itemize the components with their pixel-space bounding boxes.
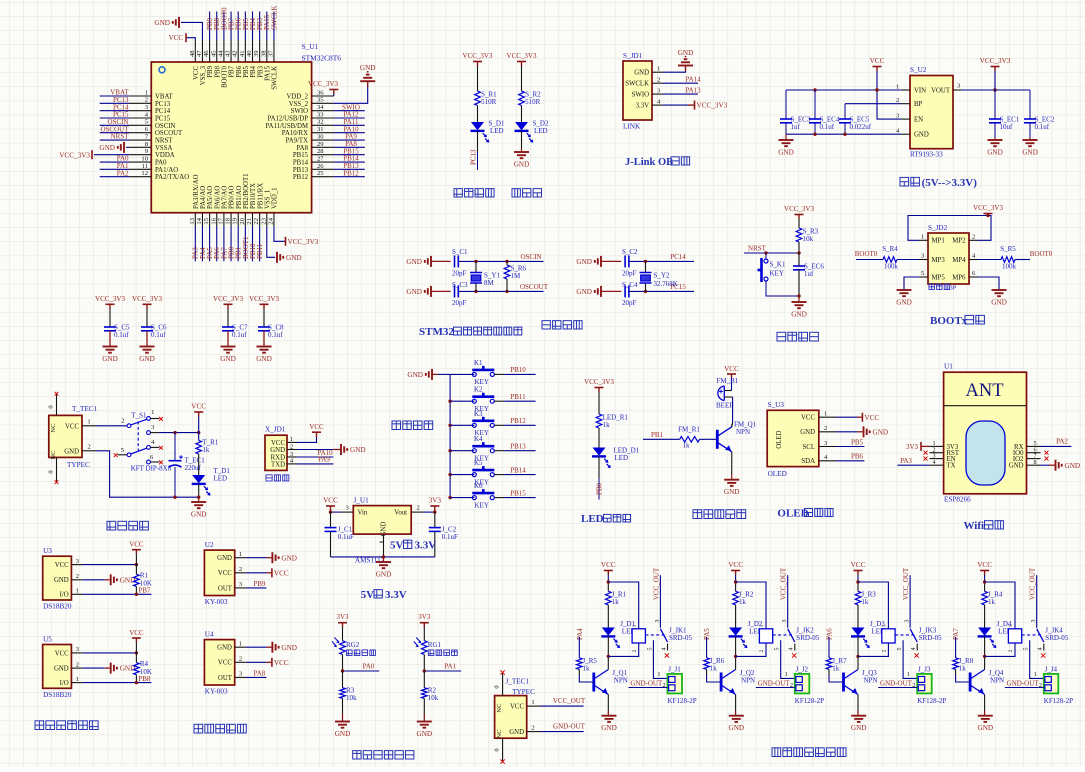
capacitor S_C7 0.1uf bbox=[222, 326, 234, 328]
svg-text:1: 1 bbox=[657, 671, 660, 678]
svg-text:GND: GND bbox=[576, 288, 592, 296]
capacitor S_C8 0.1uf bbox=[258, 326, 270, 328]
wire net VBAT bbox=[100, 95, 129, 97]
svg-text:GND: GND bbox=[851, 724, 867, 732]
wire net PB9 bbox=[209, 12, 211, 41]
svg-text:VCC: VCC bbox=[129, 541, 144, 549]
svg-text:MP6: MP6 bbox=[952, 274, 966, 281]
S_U2 pin 1 VIN bbox=[901, 89, 910, 91]
key K5 KEY bbox=[472, 473, 476, 477]
svg-text:GND: GND bbox=[407, 371, 423, 379]
svg-text:PA6/AO: PA6/AO bbox=[214, 186, 221, 209]
wire emitter to ground bbox=[857, 695, 859, 712]
svg-text:(5V-->3.3V): (5V-->3.3V) bbox=[922, 177, 978, 189]
S_JD2 pins 3 4 bbox=[919, 259, 928, 261]
wire net PB6 bbox=[836, 460, 864, 462]
svg-text:I/O: I/O bbox=[60, 680, 69, 687]
svg-text:S_R5: S_R5 bbox=[1000, 245, 1016, 253]
svg-text:VSS_2: VSS_2 bbox=[289, 101, 309, 108]
svg-text:T_S1: T_S1 bbox=[131, 412, 147, 420]
svg-text:SRD-05: SRD-05 bbox=[796, 634, 819, 642]
wire net PA8 bbox=[334, 146, 365, 148]
wire VCC node bbox=[607, 575, 609, 582]
capacitor S_EC5 0.022uf bbox=[844, 104, 846, 119]
wire net PA10 bbox=[334, 132, 365, 134]
svg-text:PA10/RX: PA10/RX bbox=[282, 130, 308, 137]
ground below S_C8 bbox=[263, 340, 265, 347]
ground below J_Q1 bbox=[602, 715, 617, 717]
svg-text:100k: 100k bbox=[884, 262, 899, 270]
S_JD1 pin 1 GND bbox=[652, 71, 663, 73]
svg-text:K2: K2 bbox=[474, 386, 483, 394]
svg-text:GND: GND bbox=[987, 149, 1003, 157]
resistor J_R3 1k bbox=[855, 591, 861, 605]
X_JD1 pin 2 GND bbox=[287, 449, 297, 451]
connector J_J1 KF128-2P bbox=[668, 674, 683, 694]
svg-text:VCC_3V3: VCC_3V3 bbox=[249, 295, 279, 303]
wire net PC14 bbox=[100, 110, 129, 112]
svg-text:DS18B20: DS18B20 bbox=[43, 603, 72, 611]
svg-text:OUT: OUT bbox=[218, 675, 233, 682]
T_S1 pin5 stub no-connect bbox=[118, 454, 128, 456]
svg-text:PB4: PB4 bbox=[250, 65, 257, 77]
wire net PC13 bbox=[477, 131, 479, 152]
antenna shape bbox=[966, 421, 1005, 485]
ground for key bus bbox=[431, 369, 433, 380]
U1 pin 48 VCC bbox=[194, 40, 196, 62]
U4 pin 2 VCC bbox=[235, 661, 246, 663]
svg-text:KFT DIP-8X8: KFT DIP-8X8 bbox=[131, 465, 172, 473]
display S_U3 OLED bbox=[767, 410, 819, 466]
svg-text:GND: GND bbox=[991, 299, 1007, 307]
connector S_JD1 LINK bbox=[623, 61, 652, 120]
ground left of S_C1 bbox=[430, 256, 432, 267]
wire bbox=[984, 605, 986, 628]
S_U3 pin 2 GND bbox=[819, 431, 836, 433]
svg-text:PB15: PB15 bbox=[510, 489, 526, 497]
svg-text:FM_R1: FM_R1 bbox=[678, 426, 700, 434]
LED T_D1 bbox=[192, 475, 205, 483]
svg-text:0.1uf: 0.1uf bbox=[232, 331, 247, 339]
svg-text:S_JD2: S_JD2 bbox=[928, 224, 948, 232]
svg-text:GND: GND bbox=[576, 258, 592, 266]
svg-text:NRST: NRST bbox=[155, 138, 173, 145]
svg-text:45: 45 bbox=[210, 50, 217, 57]
svg-text:VCC: VCC bbox=[801, 415, 815, 422]
svg-text:29: 29 bbox=[317, 141, 324, 148]
svg-text:1k: 1k bbox=[959, 664, 967, 672]
U1 pin 20 PB2/BOOT1 bbox=[244, 213, 246, 227]
title fuwei circuit bbox=[777, 332, 786, 341]
svg-text:19: 19 bbox=[232, 217, 239, 224]
wire pin1 to VCC bbox=[836, 416, 857, 418]
wire pin2 to ground bbox=[297, 449, 333, 451]
svg-text:VCC: VCC bbox=[191, 403, 206, 411]
capacitor J_C1 0.1uF bbox=[330, 512, 332, 528]
ground at U1 pin47 VSS_3 bbox=[178, 17, 180, 28]
svg-text:NRST: NRST bbox=[111, 133, 130, 141]
svg-text:0.022uf: 0.022uf bbox=[850, 123, 872, 131]
svg-text:J_J4: J_J4 bbox=[1045, 665, 1058, 673]
wire to base bbox=[700, 438, 718, 440]
U1 pin 19 PB1/AO bbox=[237, 213, 239, 227]
wire to VCC port bbox=[246, 572, 267, 574]
wire net PC13 bbox=[100, 102, 129, 104]
svg-text:PB10: PB10 bbox=[510, 366, 526, 374]
svg-text:PA9: PA9 bbox=[318, 456, 330, 464]
ground at U1 pin23 VSS_1 bbox=[276, 252, 278, 263]
svg-text:BP: BP bbox=[914, 101, 923, 108]
svg-text:12: 12 bbox=[141, 170, 148, 177]
resistor S_R1 510R bbox=[475, 91, 481, 106]
svg-text:SWCLK: SWCLK bbox=[270, 6, 278, 31]
svg-text:22: 22 bbox=[253, 218, 260, 225]
svg-text:3: 3 bbox=[1031, 620, 1037, 623]
svg-text:GND: GND bbox=[406, 258, 422, 266]
wire pin2 to VCC_3V3 loop to pin1 bbox=[908, 216, 991, 241]
svg-text:GND: GND bbox=[800, 429, 815, 436]
wire net PA2 at U1 pin5 RX bbox=[1041, 445, 1072, 447]
svg-text:1k: 1k bbox=[710, 664, 718, 672]
J_U1 GND pin down bbox=[383, 534, 385, 557]
U1 pin 17 PA7/AO bbox=[223, 213, 225, 227]
ground below S_JD2 pin5 bbox=[897, 289, 912, 291]
wire coil bottom to node bbox=[858, 643, 888, 656]
svg-text:VCC_3V3: VCC_3V3 bbox=[784, 205, 814, 213]
sensor U4 KY-003 bbox=[204, 640, 234, 685]
svg-text:SCL: SCL bbox=[803, 444, 815, 451]
wire pin3 to VCC node bbox=[150, 432, 159, 434]
svg-text:2: 2 bbox=[759, 649, 765, 652]
svg-text:TXD: TXD bbox=[271, 461, 285, 468]
regulator J_U1 AMS1117 bbox=[353, 506, 411, 534]
svg-text:FM_B1: FM_B1 bbox=[717, 377, 739, 385]
svg-text:VDD_2: VDD_2 bbox=[286, 94, 308, 101]
svg-text:1k: 1k bbox=[832, 664, 840, 672]
U1 pin 44 BOOT0 bbox=[223, 40, 225, 62]
svg-text:PB12: PB12 bbox=[293, 174, 309, 181]
svg-text:0.1uf: 0.1uf bbox=[114, 331, 129, 339]
U1 pin 30 PA9/TX bbox=[312, 139, 334, 141]
wire VSS_1 to ground bbox=[267, 227, 275, 258]
U1 pin 6 OSCOUT bbox=[129, 132, 151, 134]
wire emitter to ground bbox=[735, 695, 737, 712]
ground below T_D1 bbox=[198, 497, 200, 502]
svg-text:0.1uF: 0.1uF bbox=[338, 533, 354, 541]
wire net GND-OUT to connector pin2 bbox=[756, 687, 795, 689]
ground below J_Q3 bbox=[851, 715, 866, 717]
U1 pin 42 PB6 bbox=[237, 40, 239, 62]
wire emitter to ground bbox=[607, 695, 609, 712]
wire net PA8 bbox=[246, 676, 267, 678]
node net PA0 bbox=[343, 670, 380, 672]
svg-text:GND: GND bbox=[139, 355, 155, 363]
svg-text:39: 39 bbox=[253, 50, 260, 57]
svg-text:VCC: VCC bbox=[193, 66, 200, 80]
svg-text:2: 2 bbox=[76, 573, 79, 580]
ground below S_C5 bbox=[109, 340, 111, 347]
svg-text:PC13: PC13 bbox=[155, 101, 171, 108]
wire net PA1 bbox=[100, 168, 129, 170]
svg-text:GND: GND bbox=[360, 64, 376, 72]
resistor J_R5 1k bbox=[577, 658, 583, 670]
resistor LED_R1 1k bbox=[596, 414, 602, 428]
wire bbox=[521, 66, 523, 91]
U1 pin 3 PC14 bbox=[129, 110, 151, 112]
wire net PB5 bbox=[836, 446, 864, 448]
wire net NRST bbox=[100, 139, 129, 141]
svg-text:1k: 1k bbox=[861, 598, 869, 606]
svg-text:2: 2 bbox=[531, 724, 534, 731]
svg-text:GND: GND bbox=[914, 132, 929, 139]
wire net PB8 bbox=[216, 12, 218, 41]
svg-text:5V: 5V bbox=[390, 540, 404, 552]
svg-text:1: 1 bbox=[145, 89, 148, 96]
svg-text:1: 1 bbox=[896, 83, 899, 90]
wire pin5 to ground bbox=[904, 277, 919, 290]
svg-text:VCC_OUT: VCC_OUT bbox=[902, 567, 910, 600]
U1 pin 23 VSS_1 bbox=[266, 213, 268, 227]
capacitor S_C2 20pF bbox=[624, 255, 626, 267]
capacitor S_EC4 0.1uf bbox=[814, 90, 816, 119]
svg-text:1k: 1k bbox=[988, 598, 996, 606]
U1 pin7 IO2 no-connect bbox=[1045, 457, 1049, 461]
svg-text:PB11: PB11 bbox=[256, 243, 264, 259]
svg-text:GND: GND bbox=[286, 254, 302, 262]
svg-text:SWCLK: SWCLK bbox=[625, 81, 649, 88]
wire net PA6 bbox=[216, 227, 218, 262]
switch mechanical link dashed bbox=[137, 422, 139, 451]
svg-text:1: 1 bbox=[657, 65, 660, 72]
svg-text:U4: U4 bbox=[205, 631, 214, 639]
svg-text:5: 5 bbox=[775, 648, 781, 651]
wire net PA10 bbox=[297, 456, 333, 458]
relay dashed link bbox=[1022, 634, 1042, 636]
svg-text:GND: GND bbox=[601, 724, 617, 732]
U1 pin 37 SWCLK bbox=[273, 40, 275, 62]
svg-text:VCC_OUT: VCC_OUT bbox=[652, 567, 660, 600]
wire net PB11 bbox=[494, 400, 504, 402]
svg-text:PB15: PB15 bbox=[293, 152, 309, 159]
svg-text:S_JD1: S_JD1 bbox=[623, 52, 643, 60]
svg-text:VCC: VCC bbox=[271, 440, 285, 447]
svg-text:VCC: VCC bbox=[864, 414, 879, 422]
wire base bbox=[578, 669, 580, 675]
wire bbox=[198, 454, 200, 475]
capacitor S_EC2 0.1uf bbox=[1029, 90, 1031, 119]
svg-text:MP2: MP2 bbox=[952, 238, 966, 245]
U1 pin 32 PA11/USB/DM bbox=[312, 124, 334, 126]
resistor J_R1 1k bbox=[606, 591, 612, 605]
svg-text:1uf: 1uf bbox=[804, 270, 814, 278]
wire pin8 GND to ground bbox=[1041, 464, 1049, 466]
svg-text:1k: 1k bbox=[583, 664, 591, 672]
wire branch to relay coil bbox=[858, 582, 888, 629]
svg-text:PA3: PA3 bbox=[900, 457, 912, 465]
svg-text:32: 32 bbox=[317, 119, 324, 126]
wire net PC15 bbox=[100, 117, 129, 119]
wire net PA14 bbox=[663, 82, 698, 84]
wire to key K1 bbox=[450, 373, 474, 375]
svg-text:GND: GND bbox=[102, 355, 118, 363]
wire pin1 to VCC port bbox=[297, 437, 317, 442]
svg-text:SDA: SDA bbox=[801, 458, 815, 465]
S_JD1 pin 4 3.3V bbox=[652, 104, 663, 106]
title huoer sensor bbox=[194, 724, 203, 733]
svg-text:PA11/USB/DM: PA11/USB/DM bbox=[265, 123, 308, 130]
U1 pin 29 PA8 bbox=[312, 146, 334, 148]
ground below S_JD2 pin6 bbox=[992, 289, 1007, 291]
svg-text:2: 2 bbox=[1008, 649, 1014, 652]
wire net PA9 bbox=[334, 139, 365, 141]
svg-text:GND: GND bbox=[335, 730, 351, 738]
svg-text:1k: 1k bbox=[202, 446, 210, 454]
wire net PB13 bbox=[494, 450, 504, 452]
wire bbox=[521, 106, 523, 123]
ground at U1 pin35 VSS_2 bbox=[360, 80, 375, 82]
wire net GND-OUT to connector pin2 bbox=[629, 687, 668, 689]
wire net PB0 bbox=[230, 227, 232, 262]
svg-text:VIN: VIN bbox=[914, 87, 926, 94]
wire VCC down bbox=[198, 417, 200, 441]
op-amp U1 MCU body S_U1 STM32C8T6 bbox=[151, 62, 311, 213]
U1 pin 1 3V3 bbox=[930, 445, 944, 447]
wire base bbox=[828, 669, 830, 675]
S_U3 pin 1 VCC bbox=[819, 416, 836, 418]
svg-text:30: 30 bbox=[317, 133, 324, 140]
svg-text:VCC_3V3: VCC_3V3 bbox=[132, 295, 162, 303]
U1 pin 31 PA10/RX bbox=[312, 132, 334, 134]
wire VSS_2 to ground bbox=[334, 87, 368, 103]
svg-text:GND: GND bbox=[1009, 463, 1024, 470]
U1 pin 24 VDD_1 bbox=[273, 213, 275, 227]
resistor R2 10k bbox=[423, 671, 425, 688]
J_TEC1 top pin no-connect bbox=[502, 673, 504, 696]
wire branch to relay coil bbox=[736, 582, 766, 629]
svg-text:2: 2 bbox=[663, 682, 666, 689]
wire emitter to ground bbox=[984, 695, 986, 712]
svg-text:U3: U3 bbox=[43, 547, 52, 555]
svg-text:2: 2 bbox=[790, 682, 793, 689]
svg-text:K3: K3 bbox=[474, 410, 483, 418]
svg-text:PA9/TX: PA9/TX bbox=[286, 138, 309, 145]
svg-text:PB6: PB6 bbox=[851, 453, 864, 461]
svg-text:SWIO: SWIO bbox=[291, 108, 308, 115]
svg-text:2: 2 bbox=[882, 649, 888, 652]
ground below J_Q4 bbox=[978, 715, 993, 717]
photoresistor RG1 bbox=[422, 641, 428, 655]
svg-text:PB14: PB14 bbox=[293, 160, 309, 167]
svg-text:1: 1 bbox=[239, 640, 242, 647]
svg-text:14: 14 bbox=[196, 217, 203, 224]
svg-text:PB8: PB8 bbox=[214, 65, 221, 77]
svg-text:OLED: OLED bbox=[777, 508, 808, 520]
buzzer pin stubs bbox=[724, 390, 731, 392]
svg-text:10k: 10k bbox=[803, 235, 814, 243]
title dianyuan circuit bbox=[107, 521, 116, 530]
wire base bbox=[706, 669, 708, 675]
svg-text:43: 43 bbox=[225, 50, 232, 57]
svg-text:8: 8 bbox=[1033, 459, 1036, 466]
svg-text:0.1uf: 0.1uf bbox=[268, 331, 283, 339]
resistor S_R6 1M bbox=[506, 261, 508, 265]
svg-text:BOOTx: BOOTx bbox=[930, 315, 968, 327]
svg-text:11: 11 bbox=[142, 163, 148, 170]
wire net PA9 bbox=[297, 463, 333, 465]
wire to OSCOUT bbox=[458, 290, 543, 292]
wire pin1 to ground bbox=[663, 71, 686, 72]
wire VCC node bbox=[984, 575, 986, 582]
wire LED to collector node bbox=[857, 637, 859, 670]
svg-text:PB14: PB14 bbox=[510, 466, 526, 474]
connector J_TEC1 TYPEC bbox=[495, 696, 527, 739]
T_S1 pin6 stub no-connect bbox=[150, 461, 159, 463]
ground above S_JD1 bbox=[678, 65, 693, 67]
svg-text:VCC_3V3: VCC_3V3 bbox=[288, 238, 319, 246]
svg-text:3V3: 3V3 bbox=[336, 613, 349, 621]
antenna separator line bbox=[944, 405, 1027, 407]
junction nodes crystal 1 bbox=[474, 260, 477, 263]
svg-text:23: 23 bbox=[260, 217, 267, 224]
U1 pin 5 RX bbox=[1027, 445, 1041, 447]
wire LED to ground bus bbox=[198, 484, 200, 497]
crystal S_Y2 32.768K bbox=[645, 261, 647, 272]
resistor J_R6 1k bbox=[704, 658, 710, 670]
svg-text:PA2/TX/AO: PA2/TX/AO bbox=[155, 174, 189, 181]
sensor U3 DS18B20 bbox=[43, 556, 72, 600]
svg-text:VCC: VCC bbox=[274, 659, 289, 667]
svg-text:GND: GND bbox=[978, 724, 994, 732]
svg-text:GND: GND bbox=[99, 144, 115, 152]
U1 pin 38 PA15 bbox=[266, 40, 268, 62]
svg-text:1: 1 bbox=[76, 588, 79, 595]
svg-text:VCC: VCC bbox=[55, 562, 69, 569]
resistor J_R7 1k bbox=[826, 658, 832, 670]
svg-text:3: 3 bbox=[655, 620, 661, 623]
wire buzzer to collector bbox=[732, 397, 734, 422]
svg-text:GND: GND bbox=[54, 666, 69, 673]
svg-text:3V3: 3V3 bbox=[429, 497, 442, 505]
ground left of S_C4 bbox=[600, 286, 602, 297]
U1 pin 46 PB9 bbox=[209, 40, 211, 62]
U1 pin 14 PA4/AO bbox=[201, 213, 203, 227]
U1 pin 4 TX bbox=[930, 464, 944, 466]
sensor U5 DS18B20 bbox=[43, 645, 72, 689]
svg-text:VCC_OUT: VCC_OUT bbox=[1029, 567, 1037, 600]
svg-text:VCC: VCC bbox=[323, 497, 338, 505]
svg-text:0.1uf: 0.1uf bbox=[1035, 123, 1050, 131]
wire pin6 to ground bbox=[978, 277, 999, 290]
U1 pin 10 PA0 bbox=[129, 161, 151, 163]
wire to key K4 bbox=[450, 450, 474, 452]
resistor J_R2 1k bbox=[733, 591, 739, 605]
capacitor S_C5 0.1uf bbox=[104, 326, 116, 328]
ground below R2 bbox=[417, 721, 432, 723]
svg-text:KF128-2P: KF128-2P bbox=[917, 697, 946, 705]
svg-text:GND: GND bbox=[281, 644, 297, 652]
svg-text:K1: K1 bbox=[474, 359, 483, 367]
wire net PA5 bbox=[209, 227, 211, 262]
svg-text:2: 2 bbox=[76, 661, 79, 668]
svg-text:PA8: PA8 bbox=[253, 670, 265, 678]
svg-text:KF128-2P: KF128-2P bbox=[668, 697, 697, 705]
svg-text:PA4/AO: PA4/AO bbox=[200, 186, 207, 209]
U1 pin 40 PB4 bbox=[252, 40, 254, 62]
relay contact 4 no-connect bbox=[794, 644, 796, 651]
svg-text:1k: 1k bbox=[683, 441, 691, 449]
wire to key K5 bbox=[450, 474, 474, 476]
svg-text:3.3V: 3.3V bbox=[385, 589, 407, 601]
